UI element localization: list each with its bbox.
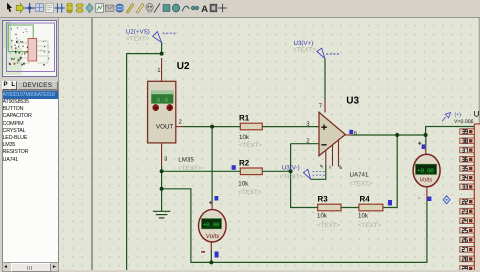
node lm35 gnd top (160, 169, 164, 173)
svg-text:-: - (418, 195, 421, 202)
overview green board strip (3, 21, 11, 75)
svg-text:U3(V-): U3(V-) (282, 165, 300, 172)
ground (153, 210, 171, 218)
left panel (0, 18, 59, 270)
wire meter1 minus down (210, 250, 212, 262)
wire supply top horizontal (127, 54, 162, 270)
svg-text:Volts: Volts (206, 233, 220, 240)
probe (+) (442, 113, 450, 122)
pin 3 of U2 (161, 143, 163, 167)
svg-text:U: U (474, 110, 480, 119)
pin 26 (460, 237, 475, 243)
wire feedback vertical and R3 R4 chain (291, 144, 318, 208)
right window edge (479, 18, 480, 270)
pin 24 (460, 218, 475, 224)
meter1 plus stub (211, 201, 213, 210)
svg-text:U2: U2 (177, 61, 190, 72)
svg-text:<TEXT>: <TEXT> (280, 173, 303, 180)
knob down (167, 104, 173, 110)
overview viewport rect (8, 25, 33, 52)
wire probe stub U2(+VS) (161, 43, 163, 54)
op-amp U3 (306, 95, 373, 187)
wire junction down to meter1 plus (211, 127, 213, 201)
wire R2 right to feedback node (262, 170, 290, 172)
wire opamp output to junctions (351, 134, 426, 136)
pin 33 (460, 184, 475, 190)
wire gnd branch right and down to bottom rail (162, 189, 427, 263)
resistor R3 (317, 195, 341, 229)
svg-text:10k: 10k (317, 213, 328, 220)
wire output up to mcu pin39 (426, 127, 474, 136)
node output R4 (395, 133, 399, 137)
lcd display of U2 (151, 91, 173, 104)
svg-text:VOUT: VOUT (156, 124, 173, 131)
knob up (153, 104, 159, 110)
svg-text:(+): (+) (455, 112, 462, 118)
svg-text:<TEXT>: <TEXT> (238, 189, 261, 196)
svg-text:<TEXT>: <TEXT> (358, 222, 381, 229)
svg-text:3: 3 (164, 156, 168, 163)
svg-text:10k: 10k (239, 134, 250, 141)
red minus tick near meter1 bottom (201, 251, 205, 253)
svg-text:U3: U3 (346, 95, 359, 106)
node bottom rail meter1 (209, 260, 213, 264)
svg-text:U2(+VS): U2(+VS) (126, 29, 150, 36)
component U2 LM35 body (148, 81, 176, 143)
wire U2 pin3 down (161, 166, 163, 210)
svg-text:1: 1 (157, 67, 161, 74)
svg-text:0.0: 0.0 (157, 97, 169, 104)
svg-text:<TEXT>: <TEXT> (126, 36, 149, 43)
svg-text:<TEXT>: <TEXT> (239, 142, 262, 149)
svg-text:V=0.006: V=0.006 (454, 119, 474, 125)
resistor R2 (232, 159, 263, 196)
svg-text:7: 7 (319, 103, 323, 110)
svg-text:<TEXT>: <TEXT> (178, 165, 201, 172)
wire R4 right up to output (383, 135, 397, 208)
horizontal scrollbar (2, 262, 59, 272)
svg-text:2: 2 (179, 119, 183, 126)
svg-text:<TEXT>: <TEXT> (317, 222, 340, 229)
svg-text:+0.00: +0.00 (417, 167, 434, 174)
pin 7 of U3 (324, 99, 326, 113)
overview window (2, 20, 57, 77)
pin 35 (460, 166, 475, 172)
overview wires (9, 39, 49, 63)
pin 39 (460, 129, 475, 135)
svg-text:6: 6 (354, 130, 358, 137)
svg-text:R2: R2 (239, 159, 250, 168)
pin 23 (460, 208, 475, 214)
blue diamond marker (443, 196, 450, 204)
wire R1 right to opamp pin3 (262, 126, 319, 128)
resistor R1 (239, 114, 262, 149)
svg-text:R3: R3 (318, 195, 329, 204)
overview sheet border (7, 23, 55, 72)
pin 22 (460, 199, 475, 205)
node output meter2 (424, 133, 428, 137)
pin 37 (460, 147, 475, 153)
node top supply (160, 52, 164, 56)
svg-text:10k: 10k (238, 181, 249, 188)
wire opamp pin2 (291, 143, 319, 145)
pin 1 of U2 (161, 58, 163, 81)
pin 29 (460, 266, 475, 272)
pin 28 (460, 256, 475, 262)
node R2 feedback (289, 169, 293, 173)
svg-text:Volts: Volts (420, 177, 433, 184)
pin stubs dark red (162, 58, 427, 251)
pin 6 output stub of U3 (346, 134, 352, 136)
wire offset-null hook (311, 165, 326, 180)
svg-text:<TEXT>: <TEXT> (350, 181, 373, 188)
wire between R3 R4 (341, 207, 359, 209)
mcu pin boxes (460, 129, 475, 271)
toolbar icons (7, 2, 12, 12)
svg-text:LM35: LM35 (178, 157, 194, 164)
body edge (473, 124, 475, 270)
pin 36 (460, 156, 475, 162)
node gnd branch (160, 187, 164, 191)
voltmeter 1 (199, 196, 227, 258)
wire U3(V+) probe to pin7 (324, 58, 326, 99)
meter2 minus stub (426, 187, 428, 202)
probe U2(+VS) (126, 29, 178, 43)
wire output down to meter2 plus (425, 135, 427, 146)
wire U2 pin2 to R1 (182, 126, 240, 128)
svg-text:R4: R4 (360, 195, 371, 204)
pin 25 (460, 227, 475, 233)
svg-text:R1: R1 (239, 114, 250, 123)
resistor R4 (358, 195, 392, 229)
svg-text:UA741: UA741 (350, 172, 369, 179)
svg-text:10k: 10k (358, 213, 369, 220)
sheet border line (91, 18, 93, 270)
pin 34 (460, 175, 475, 181)
meter1 minus stub (210, 242, 212, 251)
meter2 plus stub (425, 146, 427, 155)
mcu U1 at right edge (442, 110, 480, 271)
svg-text:<TEXT>: <TEXT> (293, 47, 316, 54)
device list (2, 90, 59, 263)
toolbar (0, 0, 480, 18)
wire lm35 out horizontal to R2 (162, 170, 241, 172)
probe U3(V+) (293, 40, 340, 59)
probe U3(V-) (280, 165, 326, 181)
voltmeter 2 (413, 142, 450, 204)
pin 27 (460, 247, 475, 253)
P L DEVICES header (2, 81, 10, 91)
overview component specks (9, 27, 50, 65)
pin 38 (460, 138, 475, 144)
overview mcu block (28, 39, 37, 62)
node U2 out (210, 125, 214, 129)
pin 2 of U2 (176, 126, 183, 128)
svg-text:+0.00: +0.00 (203, 222, 220, 229)
pin 1 4 5 stubs below U3 (325, 150, 327, 165)
